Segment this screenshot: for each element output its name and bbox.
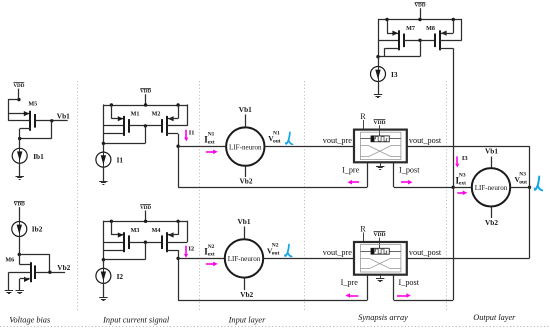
node Vb1 [50, 119, 53, 122]
wire gate bus M1-M2 [129, 125, 162, 127]
wire M5 drain to gate tie [20, 138, 52, 140]
wire gate bus M3-M4 [129, 242, 162, 244]
synapse box S2 [354, 242, 407, 275]
svg-text:N2: N2 [272, 243, 279, 249]
transistor M3 [123, 232, 125, 252]
wire R stem S1 [363, 120, 365, 130]
wire M6 gate lead / Vb2 [35, 272, 65, 274]
wire M3 drain lead [103, 250, 124, 252]
current arrow I1 (magenta) [185, 130, 187, 138]
node rail-VDD [144, 103, 147, 106]
wire M7 drain lead [385, 48, 399, 50]
wire rail end to M8 bulk [461, 19, 463, 40]
wire I_post terminal S1 [393, 162, 395, 187]
ground (I2) [99, 297, 107, 299]
svg-text:vout_pre: vout_pre [323, 248, 352, 257]
svg-text:out: out [519, 179, 527, 185]
wire Vb1 stem N2 [244, 227, 246, 240]
column separator 1 [77, 81, 79, 311]
column separator 2 [199, 81, 201, 311]
wire node to Vb2 tie [19, 254, 50, 256]
wire N1 output [265, 146, 355, 148]
wire rail end to M3 bulk/drain [103, 221, 105, 260]
svg-text:Vb1: Vb1 [57, 112, 70, 121]
wire VDD stem [420, 8, 422, 19]
svg-text:out: out [273, 138, 281, 144]
ground (I3) [374, 94, 382, 96]
svg-text:Vb1: Vb1 [239, 105, 252, 114]
wire vout_post S1 [407, 146, 530, 148]
wire I_pre feedback N1 [178, 146, 180, 187]
svg-text:vout_post: vout_post [409, 136, 442, 145]
transistor M1 [123, 116, 125, 136]
bottom dotted rule [0, 326, 550, 328]
wire vout_post S2 [407, 258, 530, 260]
current source I3 [371, 67, 386, 82]
wire M4 source branch [178, 221, 180, 235]
wire node to M5 source path [8, 99, 19, 101]
wire VDD rail [103, 221, 187, 223]
svg-text:VDD: VDD [373, 120, 385, 126]
wire Vb1 stem N3 [491, 157, 493, 169]
svg-text:R: R [360, 225, 366, 234]
svg-text:I1: I1 [117, 156, 124, 165]
wire node to Ib1 [19, 139, 21, 149]
svg-text:I_pre: I_pre [342, 165, 360, 174]
wire VDD rail [378, 19, 462, 21]
svg-text:vout_pre: vout_pre [323, 136, 352, 145]
wire VDD stem into box S1 [379, 125, 381, 136]
current arrow I_post S1 (magenta) [401, 181, 408, 183]
current arrow I2 (magenta) [185, 246, 187, 254]
wire M7 bulk lead [378, 40, 399, 42]
wire M3 bulk lead [103, 242, 124, 244]
wire Ib1 to ground [19, 163, 21, 176]
transistor M6 [30, 262, 32, 282]
wire rail end to M1 bulk/drain [103, 104, 105, 143]
svg-text:M1: M1 [131, 112, 140, 118]
node gate bus [144, 124, 147, 127]
svg-text:VDD: VDD [14, 202, 25, 208]
wire vout_post bus (right) [529, 146, 531, 258]
wire VDD rail [103, 105, 187, 107]
node VDD/M5 [17, 98, 20, 101]
svg-text:Ib2: Ib2 [32, 225, 43, 234]
wire M4 drain to node [167, 250, 178, 252]
wire I_post N1 to output node [394, 187, 454, 189]
svg-text:VDD: VDD [414, 3, 425, 9]
wire gate tie down [420, 40, 422, 56]
wire gate bus M7-M8 [404, 40, 435, 42]
svg-text:Vb2: Vb2 [485, 218, 498, 227]
current arrow I3 (magenta) [456, 156, 458, 163]
wire Vb1 stem N1 [245, 115, 247, 128]
svg-text:VDD: VDD [140, 205, 151, 211]
wire M1 drain lead [103, 133, 124, 135]
node N1 input [176, 145, 179, 148]
svg-text:N1: N1 [208, 132, 215, 138]
op-amp U3 LIF-neuron N3 [472, 168, 510, 206]
wire gate tie down [145, 126, 147, 143]
wire M3 source branch [111, 221, 113, 235]
svg-text:I1: I1 [189, 130, 195, 137]
current source Ib1 [12, 148, 27, 163]
svg-text:ext: ext [208, 140, 215, 146]
wire Vb2 stem N3 [491, 207, 493, 219]
wire VDD to Ib2 [19, 207, 21, 222]
transistor M4 [166, 232, 168, 252]
wire M6 drain lead [19, 255, 21, 265]
wire node to LIF-neuron N2 [178, 258, 225, 260]
node M5 drain / Ib1 [18, 137, 21, 140]
wire Ib2 to node [19, 237, 21, 255]
wire I_pre terminal S2 [367, 275, 369, 300]
svg-text:M3: M3 [131, 228, 140, 234]
wire I3 to ground [378, 82, 380, 95]
ground (M6 source) [16, 290, 24, 292]
synapse box S1 [354, 130, 407, 163]
synapse inner frame S1 [360, 132, 401, 159]
wire VDD stem [145, 94, 147, 105]
svg-text:I_post: I_post [399, 278, 420, 287]
svg-text:Vb2: Vb2 [240, 177, 253, 186]
wire VDD stem [145, 211, 147, 222]
wire M2 source branch [178, 105, 180, 119]
wire M6 bulk lead [9, 272, 31, 274]
wire M1 bulk lead [103, 125, 124, 127]
svg-text:Vb2: Vb2 [57, 263, 70, 272]
node rail-VDD [418, 18, 421, 21]
svg-text:M8: M8 [426, 26, 435, 32]
input arrow N1 (magenta) [206, 151, 213, 153]
svg-text:I2: I2 [117, 272, 124, 281]
wire Vb2 stem N1 [245, 166, 247, 177]
transistor M5 [29, 111, 31, 131]
wire rail end to M7 bulk [378, 19, 380, 57]
ground (I1) [99, 181, 107, 183]
node Vb2 [48, 271, 51, 274]
svg-text:M4: M4 [152, 228, 161, 234]
ground (Ib1) [16, 176, 24, 178]
svg-text:Input layer: Input layer [228, 316, 266, 325]
wire N2 output [263, 258, 354, 260]
svg-text:out: out [272, 251, 280, 257]
op-amp U2 LIF-neuron N2 [225, 239, 263, 277]
crossbar switch S1 [360, 145, 369, 147]
svg-text:vout_post: vout_post [409, 248, 442, 257]
svg-text:Synapsis array: Synapsis array [358, 313, 408, 322]
svg-text:VDD: VDD [13, 83, 24, 89]
wire M8 source branch [453, 20, 455, 34]
node N2 input [176, 257, 179, 260]
svg-text:M7: M7 [406, 26, 415, 32]
svg-text:I3: I3 [391, 70, 398, 79]
wire node to LIF-neuron N1 [178, 146, 226, 148]
spike glyph N3 (cyan) [535, 177, 540, 190]
node rail-M3 [110, 220, 113, 223]
wire M5 drain lead [20, 128, 31, 130]
wire node to I1 [103, 143, 105, 152]
node rail-M2 [176, 103, 179, 106]
svg-text:I2: I2 [188, 246, 194, 253]
current source I2 [96, 268, 111, 283]
wire M6 bulk to ground [8, 272, 10, 290]
wire M8 drain down to output node [440, 48, 453, 50]
svg-text:M6: M6 [5, 258, 14, 264]
svg-text:Output layer: Output layer [473, 313, 516, 322]
node M7 drain / I3 [376, 55, 379, 58]
wire M7 source branch [387, 20, 389, 34]
svg-text:I3: I3 [462, 155, 469, 162]
svg-text:VDD: VDD [140, 89, 151, 95]
svg-text:M5: M5 [28, 102, 37, 108]
wire VDD to node [18, 89, 20, 100]
svg-text:LIF-neuron: LIF-neuron [228, 254, 261, 263]
svg-text:M2: M2 [152, 112, 161, 118]
transistor M2 [166, 116, 168, 136]
node rail-M4 [176, 220, 179, 223]
transistor M8 [439, 30, 441, 50]
current arrow I_pre S2 (magenta) [350, 295, 358, 297]
svg-text:N2: N2 [208, 244, 215, 250]
node Ib2/M6 drain [18, 253, 21, 256]
svg-text:N3: N3 [519, 172, 526, 178]
current arrow I_pre S1 (magenta) [352, 181, 359, 183]
current arrow I_post S2 (magenta) [397, 295, 406, 297]
memristor S2 [371, 248, 389, 254]
svg-text:LIF-neuron: LIF-neuron [229, 142, 262, 151]
wire I2 to ground [103, 283, 105, 297]
memristor S1 [371, 136, 389, 142]
wire I_post N2 to output node [394, 300, 454, 302]
transistor M7 [398, 30, 400, 50]
ground (synapse S1) [380, 162, 382, 166]
svg-text:Vb2: Vb2 [240, 290, 253, 299]
node gate bus [144, 241, 147, 244]
wire M5 gate lead to Vb1 [35, 120, 67, 122]
input arrow N3 (magenta) [457, 192, 462, 194]
svg-text:N1: N1 [273, 131, 280, 137]
wire M5 bulk lead [8, 120, 30, 122]
wire node to I3 [378, 57, 380, 67]
memristor lead S2 [360, 251, 371, 253]
svg-text:Vb1: Vb1 [238, 217, 251, 226]
wire Vb2 stem N2 [244, 278, 246, 291]
wire I_post terminal S2 [393, 275, 395, 300]
svg-text:Ib1: Ib1 [33, 152, 44, 161]
wire I_pre terminal S1 [367, 162, 369, 187]
wire VDD stem into box S2 [379, 238, 381, 249]
spike glyph N1 (cyan) [286, 132, 290, 144]
svg-text:R: R [360, 112, 366, 121]
current source I1 [96, 152, 111, 167]
wire M6 source lead [20, 278, 30, 280]
wire rail end to M4 bulk [187, 221, 189, 243]
op-amp U1 LIF-neuron N1 [226, 127, 264, 165]
wire N3 output to node [510, 187, 529, 189]
node gate bus [418, 39, 421, 42]
spike glyph N2 (cyan) [285, 245, 289, 257]
wire I1 to ground [103, 167, 105, 181]
svg-text:Vb1: Vb1 [485, 146, 498, 155]
wire M5 source lead [8, 113, 29, 115]
svg-text:Input current signal: Input current signal [102, 316, 170, 325]
node rail-M7 [385, 18, 388, 21]
svg-text:LIF-neuron: LIF-neuron [475, 183, 508, 192]
wire M2 drain to node [167, 133, 178, 135]
svg-text:VDD: VDD [373, 232, 385, 238]
memristor lead S1 [360, 138, 371, 140]
node M3 drain / I2 [102, 258, 105, 261]
svg-text:I_pre: I_pre [341, 278, 359, 287]
wire gate tie down [145, 242, 147, 260]
svg-text:I_post: I_post [399, 165, 420, 174]
column separator 3 [304, 81, 306, 311]
column separator 4 [446, 81, 448, 311]
svg-text:ext: ext [459, 181, 466, 187]
svg-text:ext: ext [208, 252, 215, 258]
node M1 drain / I1 [102, 142, 105, 145]
node N3 input [452, 186, 455, 189]
node N3 output [528, 186, 531, 189]
input arrow N2 (magenta) [206, 263, 213, 265]
wire R stem S2 [363, 232, 365, 242]
node rail-M8 [452, 18, 455, 21]
ground (M6 bulk) [5, 290, 13, 292]
synapse inner frame S2 [360, 245, 401, 272]
crossbar switch S2 [360, 258, 369, 260]
wire M1 source branch [111, 105, 113, 119]
node rail-VDD [144, 220, 147, 223]
svg-text:N3: N3 [459, 173, 466, 179]
node rail-M1 [110, 103, 113, 106]
wire node to I2 [103, 260, 105, 269]
wire node to LIF-neuron N3 [453, 187, 472, 189]
wire I_pre feedback N2 [178, 258, 180, 300]
wire rail end to M2 bulk [187, 104, 189, 126]
ground (synapse S2) [380, 275, 382, 279]
current source Ib2 [12, 222, 27, 237]
svg-text:Voltage bias: Voltage bias [9, 316, 50, 325]
